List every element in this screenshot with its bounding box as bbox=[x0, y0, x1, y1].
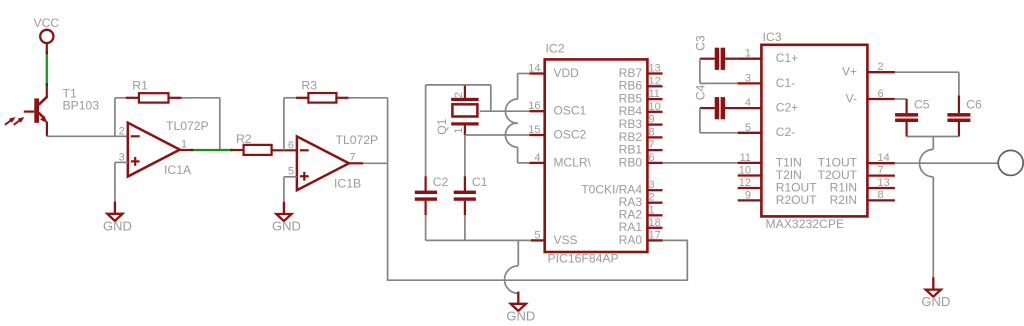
svg-text:16: 16 bbox=[528, 100, 540, 112]
IC3 pin 13 R1IN bbox=[830, 177, 895, 195]
svg-text:12: 12 bbox=[739, 177, 751, 189]
wire crystal bottom / OSC2 net bbox=[465, 135, 530, 176]
svg-text:C6: C6 bbox=[966, 98, 982, 112]
svg-text:8: 8 bbox=[878, 189, 884, 201]
svg-text:C1-: C1- bbox=[776, 76, 795, 90]
IC3 pin 6 V- bbox=[846, 88, 895, 106]
IC2 pin 16 OSC1 bbox=[528, 100, 586, 117]
IC2 right pins RA4-RA0 bbox=[581, 179, 662, 247]
svg-text:C4: C4 bbox=[693, 84, 707, 100]
svg-text:VSS: VSS bbox=[554, 233, 578, 247]
IC3 pin 8 R2IN bbox=[830, 189, 895, 207]
svg-text:Q1: Q1 bbox=[435, 118, 449, 134]
op-amp IC1A bbox=[119, 119, 209, 177]
svg-text:IC1A: IC1A bbox=[164, 163, 192, 177]
svg-text:C2: C2 bbox=[433, 175, 449, 189]
wire IC1B pin5 to ground bbox=[284, 177, 297, 202]
IC3 pin 11 T1IN bbox=[738, 152, 802, 169]
crystal Q1 bbox=[435, 85, 479, 135]
svg-text:IC2: IC2 bbox=[546, 42, 565, 56]
svg-text:C2-: C2- bbox=[776, 125, 795, 139]
svg-text:OSC2: OSC2 bbox=[554, 127, 587, 141]
svg-text:IC1B: IC1B bbox=[334, 177, 361, 191]
svg-text:V-: V- bbox=[846, 91, 857, 105]
svg-text:RB0: RB0 bbox=[619, 155, 643, 169]
svg-text:14: 14 bbox=[528, 63, 540, 75]
ground below IC2 bbox=[506, 292, 535, 324]
svg-text:6: 6 bbox=[649, 152, 655, 164]
wire C5/C6 net down with hop to ground bbox=[920, 137, 934, 278]
svg-text:4: 4 bbox=[534, 152, 540, 164]
svg-text:15: 15 bbox=[528, 124, 540, 136]
wire T1 emitter to IC1A pin2 bbox=[47, 135, 128, 137]
svg-text:R3: R3 bbox=[301, 79, 317, 93]
svg-text:8: 8 bbox=[649, 126, 655, 138]
IC3 pin 1 C1+ bbox=[738, 48, 798, 65]
svg-text:R2OUT: R2OUT bbox=[776, 193, 817, 207]
wire C1 C2 bottoms to VSS bbox=[426, 239, 531, 241]
svg-text:C1+: C1+ bbox=[776, 51, 798, 65]
svg-text:13: 13 bbox=[649, 63, 661, 75]
wire IC1B output to IC2 RA0 (bottom route) bbox=[388, 163, 688, 280]
svg-text:OSC1: OSC1 bbox=[554, 104, 587, 118]
svg-text:1: 1 bbox=[453, 127, 465, 133]
capacitor C2 bbox=[415, 175, 449, 240]
IC3 pin 9 R2OUT bbox=[738, 189, 817, 206]
svg-text:6: 6 bbox=[878, 88, 884, 100]
capacitor C3 bbox=[693, 35, 738, 83]
IC3 pin 12 R1OUT bbox=[738, 177, 817, 194]
svg-text:10: 10 bbox=[649, 101, 661, 113]
svg-text:7: 7 bbox=[350, 151, 356, 163]
svg-text:1: 1 bbox=[649, 204, 655, 216]
svg-text:5: 5 bbox=[288, 165, 294, 177]
IC3 pin 10 T2IN bbox=[738, 165, 802, 182]
svg-text:12: 12 bbox=[649, 75, 661, 87]
svg-text:10: 10 bbox=[739, 165, 751, 177]
svg-text:17: 17 bbox=[649, 229, 661, 241]
wire VCC to T1 collector bbox=[46, 43, 48, 97]
IC3 MAX3232CPE body bbox=[761, 30, 867, 231]
svg-text:VCC: VCC bbox=[34, 16, 60, 30]
svg-text:C5: C5 bbox=[914, 98, 930, 112]
svg-text:5: 5 bbox=[534, 229, 540, 241]
svg-text:7: 7 bbox=[649, 139, 655, 151]
svg-text:4: 4 bbox=[745, 97, 751, 109]
wire VDD to MCLR with hops bbox=[505, 74, 529, 163]
op-amp IC1B bbox=[288, 133, 378, 191]
capacitor C1 bbox=[454, 175, 488, 240]
IC3 pin 14 T1OUT bbox=[818, 152, 895, 170]
wire IC1A output (net to R2) bbox=[180, 149, 233, 151]
svg-text:MCLR\: MCLR\ bbox=[554, 155, 592, 169]
svg-text:6: 6 bbox=[288, 139, 294, 151]
light arrow 2 bbox=[14, 117, 25, 125]
svg-text:9: 9 bbox=[649, 114, 655, 126]
svg-text:3: 3 bbox=[745, 72, 751, 84]
svg-text:V+: V+ bbox=[842, 65, 857, 79]
capacitor C6 bbox=[947, 96, 982, 137]
wire T1OUT to connector bbox=[895, 162, 998, 164]
ground below MAX3232 bbox=[921, 277, 950, 309]
ground under IC1A bbox=[103, 202, 132, 234]
IC2 pin 5 VSS bbox=[531, 229, 578, 246]
wire crystal top / OSC1 net bbox=[426, 85, 530, 176]
IC3 pin 2 V+ bbox=[842, 61, 895, 79]
IC2 right pins RB7-RB0 bbox=[619, 63, 663, 170]
svg-text:RA0: RA0 bbox=[619, 233, 643, 247]
wire VSS net down with hop to ground bbox=[504, 240, 518, 293]
ground under IC1B bbox=[272, 202, 301, 234]
svg-text:R2IN: R2IN bbox=[830, 193, 857, 207]
svg-text:13: 13 bbox=[878, 177, 890, 189]
IC2 pin 4 MCLR bbox=[530, 152, 592, 169]
svg-text:VDD: VDD bbox=[554, 66, 580, 80]
wire IC1A pin3 to ground bbox=[115, 162, 128, 202]
svg-text:2: 2 bbox=[878, 61, 884, 73]
svg-text:11: 11 bbox=[740, 152, 751, 164]
svg-text:C2+: C2+ bbox=[776, 101, 798, 115]
svg-text:TL072P: TL072P bbox=[166, 119, 209, 133]
svg-text:2: 2 bbox=[119, 125, 125, 137]
resistor R1 bbox=[115, 79, 220, 150]
VCC symbol bbox=[34, 16, 60, 43]
capacitor C4 bbox=[693, 84, 738, 132]
svg-text:BP103: BP103 bbox=[63, 99, 100, 113]
IC3 pin 4 C2+ bbox=[738, 97, 798, 114]
svg-text:R1: R1 bbox=[132, 79, 148, 93]
svg-text:3: 3 bbox=[649, 179, 655, 191]
IC2 pin 14 VDD bbox=[528, 63, 579, 80]
IC3 pin 5 C2- bbox=[738, 122, 795, 139]
svg-text:IC3: IC3 bbox=[763, 30, 782, 44]
resistor R2 bbox=[232, 132, 297, 155]
svg-text:7: 7 bbox=[878, 164, 884, 176]
svg-text:C1: C1 bbox=[472, 175, 488, 189]
svg-text:2: 2 bbox=[649, 192, 655, 204]
svg-text:PIC16F84AP: PIC16F84AP bbox=[548, 252, 619, 266]
IC3 pin 7 T2OUT bbox=[818, 164, 895, 182]
IC2 PIC16F84AP body bbox=[545, 42, 648, 266]
wire C5 C6 bottoms bbox=[907, 136, 959, 138]
svg-text:9: 9 bbox=[745, 189, 751, 201]
wire V- to C5 bbox=[895, 98, 907, 100]
svg-text:18: 18 bbox=[649, 217, 661, 229]
wire V+ to C6 bbox=[895, 72, 959, 95]
svg-text:1: 1 bbox=[745, 48, 751, 60]
wire RB0 to T1IN bbox=[663, 162, 738, 164]
svg-text:R2: R2 bbox=[236, 132, 252, 146]
transistor T1 BP103 (photo NPN) bbox=[24, 87, 100, 137]
resistor R3 bbox=[284, 79, 388, 164]
svg-text:MAX3232CPE: MAX3232CPE bbox=[766, 217, 845, 231]
connector pad circle bbox=[998, 150, 1023, 175]
svg-text:11: 11 bbox=[649, 88, 660, 100]
IC2 pin 15 OSC2 bbox=[528, 124, 586, 141]
light arrow 1 bbox=[5, 117, 16, 125]
svg-text:2: 2 bbox=[453, 92, 465, 98]
wire IC1B output bbox=[349, 162, 388, 164]
svg-text:C3: C3 bbox=[693, 35, 707, 51]
IC3 pin 3 C1- bbox=[738, 72, 795, 89]
svg-text:14: 14 bbox=[878, 152, 890, 164]
capacitor C5 bbox=[895, 98, 930, 137]
svg-text:TL072P: TL072P bbox=[336, 133, 379, 147]
svg-text:5: 5 bbox=[745, 122, 751, 134]
